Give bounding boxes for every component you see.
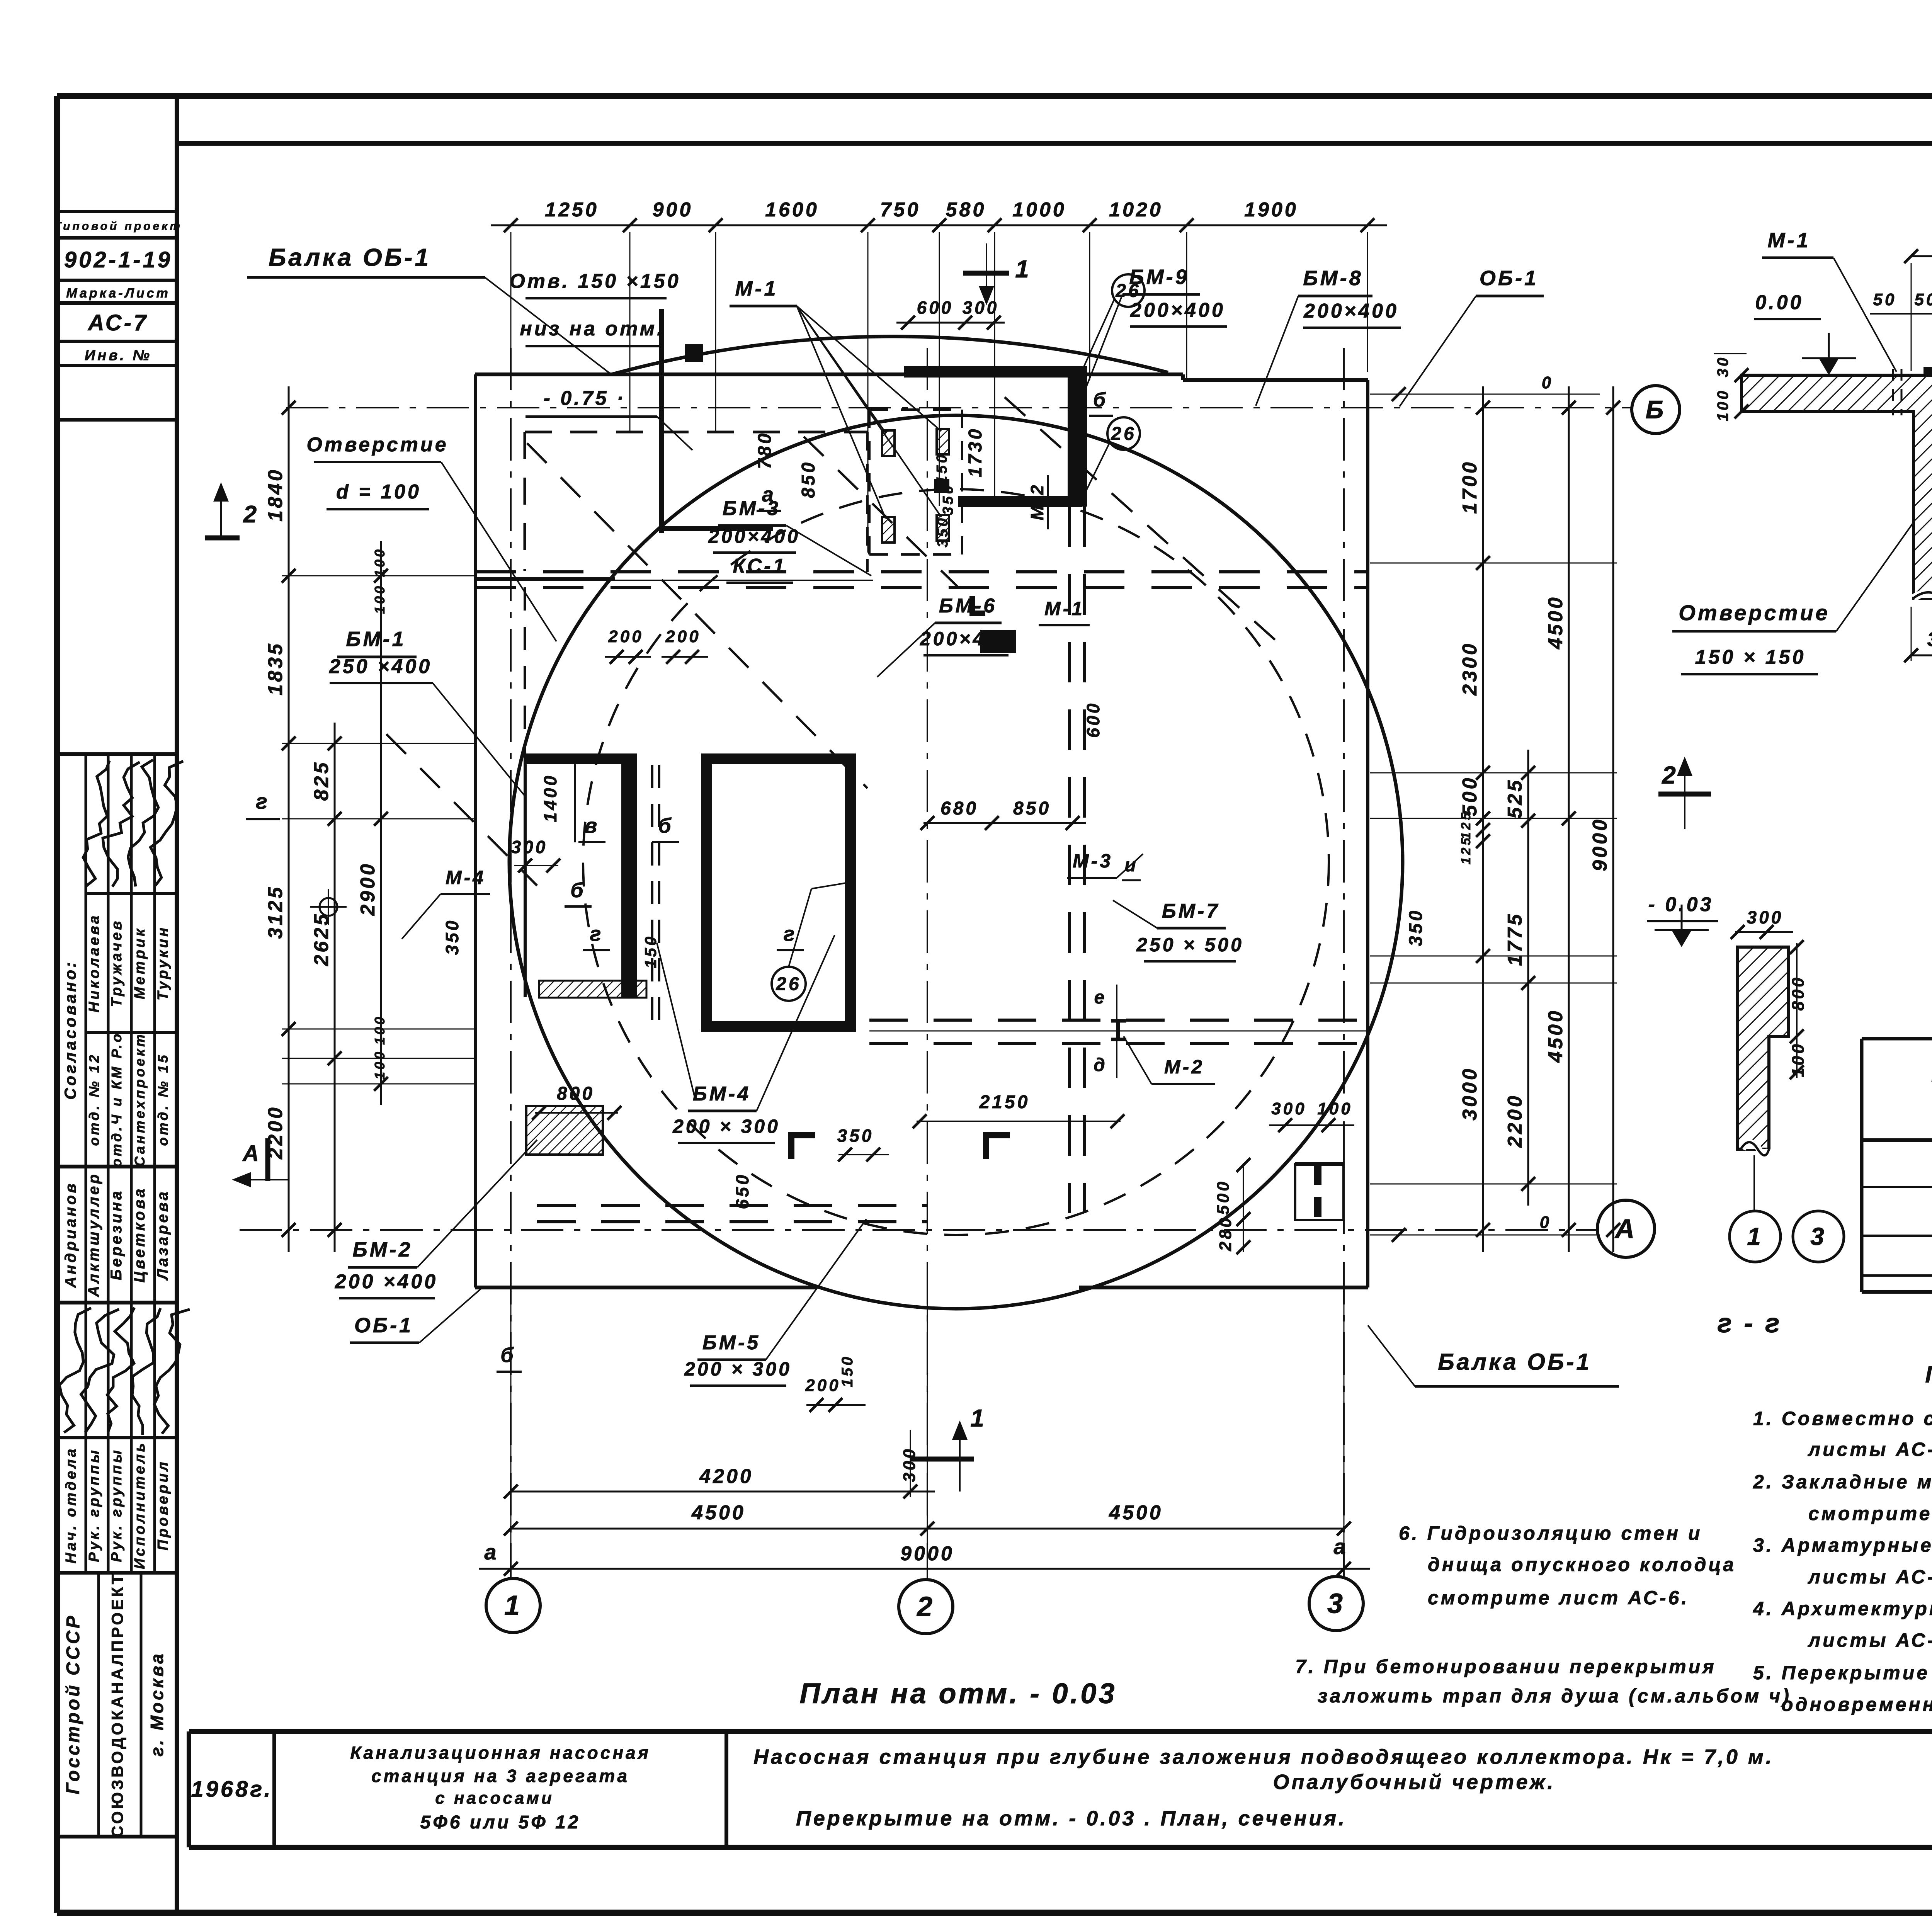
svg-text:125: 125 [1459, 836, 1473, 865]
svg-text:2300: 2300 [1459, 641, 1481, 696]
svg-text:1730: 1730 [965, 427, 986, 478]
svg-text:а: а [762, 483, 776, 506]
svg-text:Отверстие: Отверстие [306, 434, 448, 456]
svg-text:1700: 1700 [1459, 460, 1481, 514]
svg-text:5. Перекрытие на отм. -0,03: 5. Перекрытие на отм. -0,03 бетонируется [1753, 1662, 1932, 1684]
svg-text:350: 350 [837, 1126, 874, 1146]
svg-text:Канализационная насосная: Канализационная насосная [350, 1743, 651, 1763]
svg-text:100: 100 [372, 1015, 388, 1045]
svg-text:а: а [484, 1540, 498, 1564]
svg-text:КС-1: КС-1 [733, 555, 786, 577]
svg-text:100: 100 [1714, 389, 1731, 422]
svg-text:а: а [1333, 1534, 1348, 1559]
svg-text:1: 1 [970, 1404, 986, 1432]
svg-text:Согласовано:: Согласовано: [61, 960, 79, 1100]
svg-text:50: 50 [1873, 290, 1897, 309]
svg-text:1000: 1000 [1012, 199, 1066, 221]
svg-text:листы АС-35÷38.: листы АС-35÷38. [1808, 1566, 1932, 1588]
svg-text:г: г [256, 789, 270, 813]
svg-text:200: 200 [608, 627, 643, 646]
svg-text:2150: 2150 [979, 1092, 1030, 1112]
svg-text:780: 780 [755, 431, 775, 469]
svg-text:Насосная станция при гл: Насосная станция при глубине заложения п… [753, 1745, 1774, 1769]
svg-text:200: 200 [665, 627, 701, 646]
svg-text:б: б [1093, 389, 1108, 411]
svg-text:850: 850 [798, 460, 819, 498]
svg-text:800: 800 [557, 1083, 595, 1104]
svg-text:150: 150 [641, 934, 660, 968]
svg-text:БМ-7: БМ-7 [1162, 900, 1220, 922]
svg-text:б: б [658, 814, 673, 837]
svg-text:станция на 3 агрегата: станция на 3 агрегата [371, 1766, 629, 1786]
svg-text:Проверил: Проверил [155, 1460, 171, 1551]
svg-text:БМ-2: БМ-2 [352, 1238, 412, 1261]
svg-text:1400: 1400 [540, 774, 560, 822]
svg-text:1250: 1250 [545, 199, 599, 221]
svg-text:1: 1 [504, 1590, 522, 1621]
svg-text:Лазарева: Лазарева [154, 1189, 171, 1281]
svg-text:Отверстие: Отверстие [1679, 600, 1830, 625]
svg-text:2: 2 [916, 1591, 935, 1622]
svg-text:Сантехпроект: Сантехпроект [132, 1032, 148, 1167]
svg-text:М-3: М-3 [1073, 850, 1113, 872]
svg-text:днища опускного колодца: днища опускного колодца [1428, 1554, 1736, 1575]
svg-text:БМ-4: БМ-4 [693, 1083, 751, 1105]
svg-text:200×400: 200×400 [708, 526, 800, 547]
svg-text:100: 100 [372, 547, 388, 577]
svg-text:300: 300 [1271, 1099, 1306, 1118]
svg-text:280: 280 [1216, 1216, 1235, 1251]
svg-text:200×400: 200×400 [1303, 300, 1399, 322]
svg-text:Метрик: Метрик [132, 927, 148, 999]
svg-text:БМ-1: БМ-1 [346, 628, 406, 651]
svg-text:350: 350 [935, 516, 951, 547]
svg-text:1968г.: 1968г. [191, 1777, 272, 1802]
svg-text:0: 0 [1542, 373, 1553, 392]
svg-text:Исполнитель: Исполнитель [132, 1441, 148, 1569]
svg-text:1775: 1775 [1504, 912, 1526, 966]
svg-text:Отв. 150 ×150: Отв. 150 ×150 [509, 270, 680, 293]
svg-text:3000: 3000 [1459, 1066, 1481, 1121]
svg-text:1: 1 [1015, 255, 1031, 283]
svg-text:Балка ОБ-1: Балка ОБ-1 [1438, 1349, 1592, 1375]
svg-text:Госстрой СССР: Госстрой СССР [63, 1614, 83, 1794]
svg-text:1840: 1840 [264, 468, 287, 522]
svg-text:б: б [570, 879, 585, 902]
svg-text:2900: 2900 [357, 862, 379, 916]
svg-text:б: б [500, 1344, 515, 1367]
svg-text:4200: 4200 [699, 1465, 753, 1488]
svg-text:1835: 1835 [264, 641, 287, 696]
svg-text:100: 100 [372, 1049, 388, 1080]
svg-text:4500: 4500 [1544, 1009, 1567, 1063]
svg-text:с насосами: с насосами [435, 1789, 554, 1808]
svg-text:в: в [585, 814, 600, 837]
svg-text:ОБ-1: ОБ-1 [1480, 267, 1538, 290]
svg-text:и: и [1124, 855, 1138, 876]
svg-text:825: 825 [310, 760, 333, 801]
svg-text:М-4: М-4 [446, 867, 486, 888]
svg-text:М-2: М-2 [1164, 1056, 1204, 1078]
svg-text:листы АС-3,4,5.: листы АС-3,4,5. [1808, 1629, 1932, 1651]
svg-text:Николаева: Николаева [86, 913, 102, 1013]
svg-text:800: 800 [1789, 975, 1808, 1010]
svg-text:850: 850 [1013, 798, 1051, 819]
svg-text:350: 350 [442, 918, 462, 955]
svg-text:300: 300 [900, 1447, 919, 1482]
svg-text:525: 525 [1504, 778, 1526, 819]
svg-text:отд. № 15: отд. № 15 [155, 1053, 171, 1146]
svg-text:50: 50 [1915, 290, 1932, 309]
svg-text:ОБ-1: ОБ-1 [354, 1314, 413, 1337]
svg-text:200 × 300: 200 × 300 [684, 1358, 792, 1380]
svg-text:План на отм. - 0.03: План на отм. - 0.03 [799, 1677, 1117, 1709]
svg-text:250 × 500: 250 × 500 [1136, 934, 1244, 956]
svg-text:БМ-6: БМ-6 [939, 595, 997, 617]
svg-text:Опалубочный чертеж.: Опалубочный чертеж. [1273, 1770, 1555, 1794]
svg-text:300: 300 [1747, 907, 1784, 927]
svg-text:Алктшуллер: Алктшуллер [85, 1172, 102, 1297]
svg-text:одновременно со стенами и: одновременно со стенами и перегородкой [1781, 1694, 1932, 1715]
svg-text:д: д [1094, 1055, 1107, 1075]
svg-text:902-1-19: 902-1-19 [64, 247, 172, 272]
svg-text:100: 100 [1317, 1099, 1352, 1118]
svg-text:2200: 2200 [1504, 1094, 1526, 1148]
svg-text:2: 2 [1662, 761, 1678, 789]
svg-text:Балка ОБ-1: Балка ОБ-1 [269, 243, 431, 271]
svg-text:1600: 1600 [765, 199, 819, 221]
svg-text:150 × 150: 150 × 150 [1695, 646, 1806, 668]
svg-text:125: 125 [1459, 811, 1473, 840]
svg-text:Тружачев: Тружачев [109, 919, 125, 1007]
svg-text:3: 3 [1327, 1588, 1345, 1619]
svg-text:2625: 2625 [310, 912, 333, 966]
svg-text:300: 300 [963, 298, 999, 318]
svg-text:М-1: М-1 [1768, 229, 1811, 252]
svg-text:Инв. №: Инв. № [85, 347, 152, 364]
svg-text:3. Арматурные чертежи смот: 3. Арматурные чертежи смотрите [1753, 1534, 1932, 1556]
svg-text:г: г [590, 922, 604, 946]
svg-text:Березина: Березина [108, 1189, 125, 1281]
svg-text:500: 500 [1459, 776, 1481, 816]
svg-text:300: 300 [1927, 628, 1932, 651]
svg-text:2. Закладные марки и специф: 2. Закладные марки и спецификацию стали [1753, 1471, 1932, 1493]
svg-text:1900: 1900 [1244, 199, 1298, 221]
svg-text:БМ-9: БМ-9 [1129, 265, 1189, 289]
svg-text:350: 350 [940, 483, 956, 515]
svg-text:200×400: 200×400 [920, 628, 1012, 650]
svg-text:Типовой проект: Типовой проект [54, 220, 182, 233]
svg-text:листы АС-8,9,10,11,14.: листы АС-8,9,10,11,14. [1808, 1439, 1932, 1460]
svg-text:1. Совместно с данным лист: 1. Совместно с данным листом смотрите [1753, 1408, 1932, 1429]
svg-text:смотрите лист АС-6.: смотрите лист АС-6. [1428, 1587, 1689, 1609]
svg-text:Марка-Лист: Марка-Лист [66, 286, 170, 301]
svg-text:7. При бетонировании перекр: 7. При бетонировании перекрытия [1295, 1656, 1716, 1677]
svg-text:заложить трап для душа (см.: заложить трап для душа (см.альбом ч) [1318, 1685, 1791, 1707]
svg-text:0.00: 0.00 [1755, 291, 1803, 314]
svg-text:г: г [784, 922, 797, 946]
svg-text:150: 150 [934, 452, 950, 484]
svg-text:3: 3 [1810, 1223, 1827, 1250]
svg-text:680: 680 [940, 798, 978, 819]
svg-text:500: 500 [1214, 1179, 1233, 1214]
svg-text:Рук. группы: Рук. группы [109, 1448, 125, 1562]
svg-text:2: 2 [243, 501, 259, 528]
svg-text:г. Москва: г. Москва [147, 1651, 167, 1757]
svg-text:Рук. группы: Рук. группы [86, 1448, 102, 1562]
svg-text:Б: Б [1646, 395, 1666, 423]
svg-text:М-2: М-2 [1027, 483, 1047, 520]
svg-text:600: 600 [1083, 701, 1103, 738]
svg-text:4. Архитектурные чертежи с: 4. Архитектурные чертежи смотрите [1753, 1598, 1932, 1619]
svg-text:низ на отм.: низ на отм. [520, 318, 665, 340]
svg-text:350: 350 [1406, 908, 1426, 946]
svg-text:26: 26 [1111, 423, 1136, 444]
svg-text:30: 30 [1714, 355, 1731, 378]
svg-text:200×400: 200×400 [1130, 299, 1225, 321]
svg-text:1020: 1020 [1109, 199, 1163, 221]
svg-text:БМ-5: БМ-5 [702, 1332, 760, 1354]
svg-text:смотрите листы АС-17,18.: смотрите листы АС-17,18. [1808, 1503, 1932, 1524]
svg-text:Турукин: Турукин [155, 925, 171, 1000]
svg-text:4500: 4500 [1544, 595, 1567, 650]
svg-text:БМ-8: БМ-8 [1303, 267, 1363, 290]
svg-text:d = 100: d = 100 [336, 481, 421, 503]
svg-text:Перекрытие на отм.: Перекрытие на отм. - 0.03 . План, сечени… [796, 1807, 1347, 1830]
svg-text:СОЮЗВОДОКАНАЛПРОЕКТ: СОЮЗВОДОКАНАЛПРОЕКТ [108, 1572, 126, 1838]
svg-text:200: 200 [805, 1376, 840, 1395]
svg-text:150: 150 [839, 1355, 856, 1388]
svg-text:1: 1 [1747, 1223, 1763, 1250]
svg-text:отд.Ч и КМ Р.о: отд.Ч и КМ Р.о [109, 1032, 124, 1167]
svg-text:отд. № 12: отд. № 12 [86, 1053, 102, 1146]
svg-text:650: 650 [732, 1173, 752, 1209]
svg-text:600: 600 [917, 298, 954, 318]
svg-text:Нач. отдела: Нач. отдела [63, 1447, 79, 1564]
svg-text:М-1: М-1 [735, 277, 778, 300]
svg-text:4500: 4500 [1109, 1502, 1163, 1524]
svg-text:г - г: г - г [1718, 1308, 1782, 1338]
svg-text:5Ф6 или 5Ф 12: 5Ф6 или 5Ф 12 [420, 1812, 581, 1833]
svg-text:750: 750 [880, 199, 921, 221]
svg-text:М-1: М-1 [1044, 598, 1085, 619]
svg-text:- 0.75 ·: - 0.75 · [544, 387, 626, 410]
svg-text:580: 580 [946, 199, 986, 221]
svg-text:900: 900 [653, 199, 693, 221]
svg-text:6. Гидроизоляцию стен и: 6. Гидроизоляцию стен и [1399, 1522, 1702, 1544]
svg-text:4500: 4500 [691, 1502, 746, 1524]
svg-text:100: 100 [372, 584, 388, 614]
svg-text:Цветкова: Цветкова [131, 1187, 148, 1283]
svg-text:Примечания:: Примечания: [1925, 1362, 1932, 1388]
svg-text:200 × 300: 200 × 300 [672, 1116, 780, 1137]
svg-text:Андрианов: Андрианов [62, 1181, 79, 1288]
svg-text:А: А [1614, 1214, 1637, 1244]
svg-text:26: 26 [776, 974, 801, 994]
svg-text:А: А [242, 1141, 261, 1166]
svg-text:0: 0 [1540, 1213, 1551, 1232]
svg-text:е: е [1094, 987, 1107, 1008]
svg-text:АС-7: АС-7 [87, 310, 148, 335]
svg-text:300: 300 [511, 837, 548, 857]
svg-text:3125: 3125 [264, 885, 287, 939]
svg-text:9000: 9000 [1589, 817, 1611, 871]
svg-text:200 ×400: 200 ×400 [335, 1270, 438, 1293]
svg-text:250 ×400: 250 ×400 [329, 655, 432, 678]
